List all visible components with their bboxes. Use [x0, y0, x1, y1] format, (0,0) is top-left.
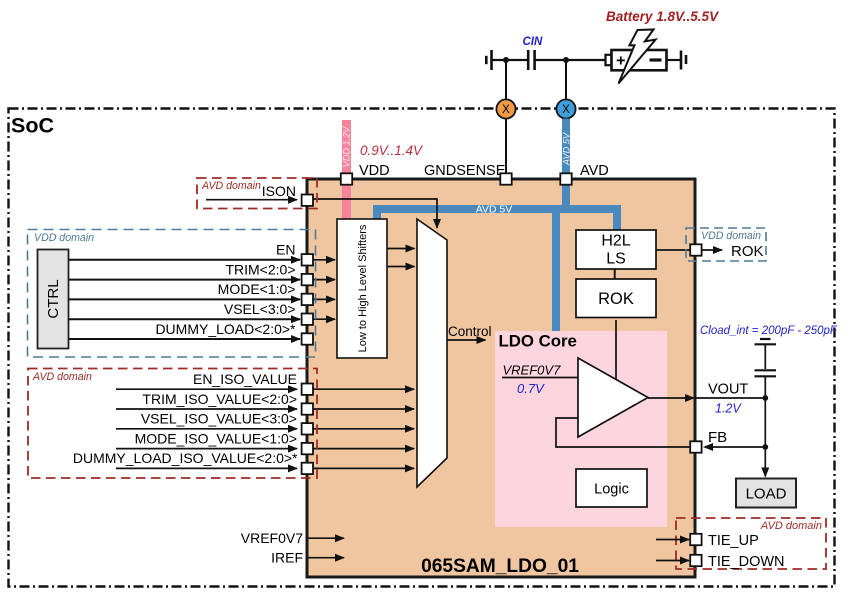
- svg-text:TIE_DOWN: TIE_DOWN: [708, 554, 785, 570]
- svg-text:ISON: ISON: [262, 183, 296, 199]
- AVD domain box left lower: [28, 369, 317, 479]
- svg-text:TRIM_ISO_VALUE<2:0>: TRIM_ISO_VALUE<2:0>: [142, 391, 297, 407]
- wire IREF: [309, 557, 345, 559]
- LOAD box: [736, 479, 796, 508]
- wire to LOAD: [764, 447, 766, 477]
- svg-text:AVD: AVD: [580, 163, 609, 179]
- svg-text:CTRL: CTRL: [45, 279, 62, 318]
- Logic box: [576, 469, 647, 507]
- wire VSEL_ISO internal: [313, 428, 414, 430]
- capacitor Cload terminal: [760, 338, 771, 340]
- svg-text:065SAM_LDO_01: 065SAM_LDO_01: [421, 556, 579, 577]
- svg-text:VREF0V7: VREF0V7: [241, 530, 303, 546]
- pin DUMMY_LOAD: [302, 333, 313, 344]
- pin ROK: [690, 244, 701, 255]
- wire elbow right down to H2L: [613, 205, 621, 230]
- capacitor CIN: [527, 50, 530, 70]
- svg-text:TIE_UP: TIE_UP: [708, 533, 759, 549]
- op-amp U1: [578, 358, 648, 437]
- pin VSEL_ISO: [302, 423, 313, 434]
- svg-text:SoC: SoC: [11, 114, 54, 138]
- svg-text:DUMMY_LOAD<2:0>*: DUMMY_LOAD<2:0>*: [155, 321, 296, 337]
- AVD domain box ISON: [197, 178, 317, 209]
- svg-text:VDD: VDD: [359, 163, 390, 179]
- node VOUT: [762, 395, 768, 401]
- pin MODE: [302, 294, 313, 305]
- junction node AVD-top: [563, 57, 569, 63]
- svg-text:LDO Core: LDO Core: [499, 332, 577, 351]
- wire feedback: [556, 418, 690, 447]
- svg-text:AVD 5V: AVD 5V: [562, 132, 572, 166]
- wire AVD 5V vertical (blue thick): [562, 119, 570, 176]
- svg-text:Control: Control: [448, 324, 492, 339]
- wire top rail left segment: [492, 59, 682, 61]
- wire ROK out: [702, 249, 722, 251]
- svg-text:VSEL_ISO_VALUE<3:0>: VSEL_ISO_VALUE<3:0>: [141, 411, 297, 427]
- pin TRIM_ISO: [302, 403, 313, 414]
- svg-text:Low to High Level Shifters: Low to High Level Shifters: [357, 224, 369, 352]
- wire EN: [69, 259, 301, 261]
- svg-text:Cload_int = 200pF - 250pF: Cload_int = 200pF - 250pF: [700, 325, 838, 337]
- pin EN_ISO: [302, 384, 313, 395]
- wire GNDSENSE vertical lower: [505, 119, 507, 176]
- svg-text:MODE<1:0>: MODE<1:0>: [218, 281, 296, 297]
- svg-text:X: X: [502, 104, 510, 116]
- svg-text:1.2V: 1.2V: [715, 402, 742, 416]
- wire MODE internal: [313, 298, 335, 300]
- terminal left: [485, 56, 488, 64]
- wire TRIM_ISO external: [116, 408, 297, 410]
- ROK box: [576, 279, 656, 318]
- svg-text:H2L: H2L: [601, 233, 630, 250]
- pin ISON: [302, 195, 313, 206]
- svg-text:AVD 5V: AVD 5V: [476, 204, 513, 216]
- node FB: [762, 444, 768, 450]
- wire AVD down to core: [552, 213, 560, 331]
- junction node GNDSENSE-top: [503, 57, 509, 63]
- lightning bolt: [619, 30, 656, 84]
- wire ROK to opamp: [615, 320, 617, 380]
- svg-text:DUMMY_LOAD_ISO_VALUE<2:0>*: DUMMY_LOAD_ISO_VALUE<2:0>*: [73, 450, 298, 466]
- wire VDD 1.2V (pink): [342, 120, 351, 219]
- wire H2L to ROK: [614, 269, 616, 279]
- wire TIE_DOWN internal: [656, 560, 689, 562]
- wire MODE: [69, 298, 301, 300]
- level shifters box: [337, 219, 387, 358]
- svg-text:0.7V: 0.7V: [517, 381, 545, 396]
- svg-text:EN: EN: [276, 242, 295, 258]
- wire TRIM_ISO internal: [313, 408, 414, 410]
- svg-text:MODE_ISO_VALUE<1:0>: MODE_ISO_VALUE<1:0>: [135, 430, 297, 446]
- svg-text:AVD domain: AVD domain: [32, 371, 92, 383]
- pin VSEL: [302, 314, 313, 325]
- wire GNDSENSE vertical upper: [505, 60, 507, 100]
- CTRL block: [38, 250, 69, 349]
- svg-text:GNDSENSE: GNDSENSE: [424, 163, 506, 179]
- pin EN: [302, 254, 313, 265]
- wire FB external (arrow to pin): [708, 446, 765, 448]
- svg-text:X: X: [562, 104, 570, 116]
- wire H2L to ROK pin: [656, 249, 690, 251]
- AVD domain box right lower: [676, 518, 826, 569]
- wire elbow left down: [373, 205, 381, 219]
- svg-text:FB: FB: [708, 429, 727, 446]
- wire DUMMY_LOAD: [69, 338, 301, 340]
- wire MODE_ISO external: [116, 448, 297, 450]
- wire EN_ISO internal: [313, 388, 414, 390]
- wire VREF0V7: [309, 537, 345, 539]
- wire DUMMY_ISO internal: [313, 467, 414, 469]
- svg-text:ROK: ROK: [598, 290, 634, 308]
- SoC boundary: [9, 109, 835, 587]
- svg-text:Logic: Logic: [594, 482, 629, 498]
- pin MODE_ISO: [302, 443, 313, 454]
- VDD domain box left: [28, 230, 316, 358]
- svg-text:EN_ISO_VALUE: EN_ISO_VALUE: [193, 371, 297, 387]
- svg-text:IREF: IREF: [271, 550, 303, 566]
- pin FB: [690, 441, 701, 452]
- pin VDD: [341, 173, 352, 184]
- battery BT1: [606, 55, 612, 65]
- svg-text:VDD domain: VDD domain: [34, 232, 94, 244]
- wire Control: [447, 339, 486, 341]
- probe X blue: [556, 99, 575, 118]
- wire EN internal: [313, 259, 335, 261]
- wire VREF0V7 to opamp: [502, 377, 578, 379]
- wire TIE_UP internal: [656, 539, 689, 541]
- wire TRIM internal: [313, 279, 335, 281]
- wire VOUT down to FB node: [764, 398, 766, 447]
- pin DUMMY_ISO: [302, 463, 313, 474]
- wire VSEL_ISO external: [116, 428, 297, 430]
- svg-text:TRIM<2:0>: TRIM<2:0>: [225, 261, 295, 277]
- wire AVD pin down: [562, 183, 570, 213]
- svg-text:ROK: ROK: [731, 243, 764, 260]
- svg-text:VOUT: VOUT: [708, 382, 748, 398]
- H2L LS box: [576, 230, 656, 269]
- wire MODE_ISO internal: [313, 448, 414, 450]
- main block 065SAM_LDO_01: [307, 179, 695, 577]
- VDD domain box right: [686, 228, 766, 261]
- svg-text:VSEL<3:0>: VSEL<3:0>: [224, 301, 296, 317]
- wire VOUT internal: [648, 397, 694, 399]
- svg-text:0.9V..1.4V: 0.9V..1.4V: [360, 143, 424, 158]
- LDO core region: [495, 331, 667, 527]
- mux trapezoid: [417, 219, 447, 487]
- svg-text:VDD domain: VDD domain: [701, 230, 761, 242]
- wire TRIM: [69, 279, 301, 281]
- pin GNDSENSE: [500, 173, 511, 184]
- svg-text:AVD domain: AVD domain: [201, 180, 261, 192]
- wire LS out 2: [387, 266, 415, 268]
- wire ISON external: [206, 199, 297, 201]
- svg-text:Battery 1.8V..5.5V: Battery 1.8V..5.5V: [606, 9, 719, 24]
- wire VSEL: [69, 318, 301, 320]
- probe X orange: [496, 99, 515, 118]
- svg-text:CIN: CIN: [523, 36, 544, 48]
- wire ISON internal: [313, 199, 437, 228]
- svg-text:+: +: [616, 53, 625, 70]
- svg-text:LOAD: LOAD: [746, 486, 787, 503]
- wire VSEL internal: [313, 318, 335, 320]
- svg-text:VREF0V7: VREF0V7: [503, 363, 562, 378]
- wire AVD 5V horizontal bar (blue): [373, 205, 621, 213]
- wire AVD vertical upper: [565, 60, 567, 100]
- terminal right: [680, 51, 683, 70]
- svg-text:AVD domain: AVD domain: [760, 520, 822, 532]
- svg-text:LS: LS: [606, 251, 626, 268]
- wire LS out 1: [387, 248, 415, 250]
- capacitor Cload plates: [755, 369, 777, 371]
- pin AVD: [560, 173, 571, 184]
- wire EN_ISO external: [116, 388, 297, 390]
- wire DUMMY_ISO external: [116, 467, 297, 469]
- wire VOUT external: [695, 397, 765, 399]
- pin TIE_DOWN: [690, 555, 701, 566]
- svg-text:VDD 1.2V: VDD 1.2V: [342, 126, 352, 168]
- pin TRIM: [302, 274, 313, 285]
- pin TIE_UP: [690, 534, 701, 545]
